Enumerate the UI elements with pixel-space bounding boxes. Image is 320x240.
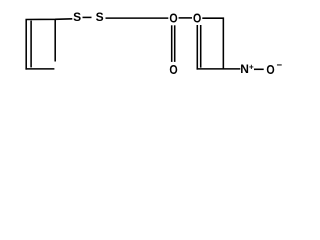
svg-text:+: + [249,63,254,72]
svg-text:O: O [169,62,177,77]
svg-text:O: O [266,62,274,77]
wire bond N to O4 [254,68,264,70]
svg-text:S: S [73,10,81,24]
wire left ring middle vertical [54,19,56,61]
svg-text:−: − [277,60,283,71]
wire right ring inner double bond line [200,25,202,68]
wire long bond S2 to O1 [106,17,169,19]
svg-text:S: S [96,10,104,24]
svg-text:N: N [240,62,249,76]
wire left ring bottom edge [25,68,54,70]
wire double bond O1=O3 line b [174,25,176,62]
wire double bond O1=O3 line a [171,25,173,62]
svg-text:O: O [169,11,177,26]
svg-text:O: O [193,11,201,26]
wire right ring bottom edge continuing to N [197,68,241,70]
wire right ring outer left edge [196,25,198,70]
wire left ring: left edge, top edge and bond to S1 [26,19,72,70]
wire bond O1 to O2 [179,17,192,19]
wire bond S1 to S2 [83,16,92,18]
wire left ring inner double bond line [30,21,32,68]
wire right ring top edge and right edge [202,18,223,69]
